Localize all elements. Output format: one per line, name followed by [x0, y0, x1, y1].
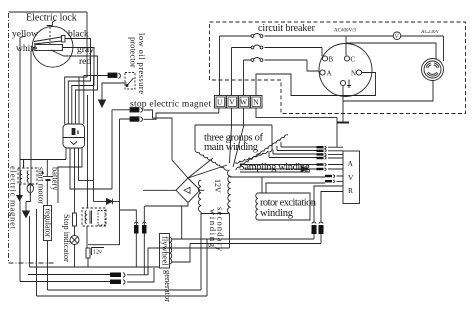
funnel right scalloped edge [235, 150, 272, 163]
wire bridge top diagonal [188, 158, 213, 178]
wire connector2 left [120, 119, 131, 201]
wire black lead [65, 39, 91, 125]
wires lower connectors up to AVR [314, 186, 343, 222]
svg-text:Stop indicator: Stop indicator [62, 214, 72, 262]
12V secondary winding coil [199, 180, 201, 212]
svg-text:B: B [329, 56, 334, 64]
wire oil switch feed [84, 76, 108, 125]
wires rotor winding to lower connectors [230, 177, 325, 193]
connector chevrons [325, 146, 327, 159]
wire bridge bottom [145, 203, 188, 239]
wire pole3 to pin A [307, 60, 320, 71]
wire bottom run 5 [37, 209, 208, 296]
ignition coil dashed box [82, 208, 106, 226]
ground arrow (start motor) [23, 211, 30, 218]
12v label box [92, 248, 105, 256]
relay / fuse block K1 [63, 124, 85, 148]
svg-text:flywheel: flywheel [161, 236, 171, 266]
svg-text:main winding: main winding [204, 142, 259, 153]
start motor symbol [27, 184, 33, 192]
ground arrow (electric magnet) [19, 184, 21, 196]
svg-text:battery: battery [51, 167, 61, 191]
svg-text:C: C [351, 56, 356, 64]
svg-text:W: W [240, 97, 248, 106]
wire bridge left [143, 189, 176, 191]
long run B [172, 244, 321, 263]
wire relay pin 5 stub [78, 77, 80, 124]
wire relay bottom pin 5 [58, 148, 82, 203]
wires lamp [74, 226, 76, 267]
wire oil switch to ground [102, 83, 127, 100]
svg-text:electric magnet: electric magnet [9, 166, 19, 230]
long run A to flywheel [172, 238, 314, 240]
wire start motor to ground [26, 193, 30, 211]
svg-text:start motor: start motor [37, 167, 47, 204]
bridge rectifier [176, 178, 200, 203]
wire W terminal bottom [233, 108, 244, 167]
wire panel corner to relay [65, 12, 87, 124]
wire red lead [64, 56, 98, 124]
wire relay bottom pin 4 (coil feed) [79, 148, 94, 180]
svg-text:generator: generator [163, 270, 173, 302]
wire bus to battery group [20, 160, 66, 177]
diode D1 [94, 200, 120, 202]
svg-text:N: N [351, 70, 356, 78]
svg-text:V: V [348, 173, 354, 182]
lower excitation connectors (vertical) [312, 225, 317, 234]
wire bridge right [200, 190, 230, 290]
ground arrow (oil protector) [101, 100, 103, 101]
stop indicator lamp [70, 236, 79, 245]
wire bottom run 4 (regulator) [48, 241, 202, 290]
electric magnet dashed box [18, 168, 37, 184]
svg-text:R: R [348, 186, 353, 195]
svg-text:circuit breaker: circuit breaker [258, 23, 316, 34]
ground under socket [342, 86, 344, 122]
socket pin B [322, 56, 327, 61]
AC230V socket [422, 59, 444, 81]
svg-text:stop electric magnet: stop electric magnet [130, 100, 211, 110]
wire yellow lead [20, 36, 26, 160]
stop electric magnet connector 2 [130, 117, 139, 122]
svg-text:winding: winding [260, 208, 294, 219]
AVR box [343, 151, 360, 204]
flywheel generator box [160, 234, 170, 269]
circuit breaker pole 3 [244, 60, 308, 96]
svg-text:A: A [348, 159, 354, 168]
svg-text:Electric lock: Electric lock [26, 13, 77, 24]
wires lower connectors down [314, 234, 321, 244]
wire AC230V socket bottom [343, 81, 433, 102]
wire V terminal bottom [230, 108, 232, 163]
control panel dash-dot border [9, 13, 56, 263]
wire pole2 to pin B [321, 48, 323, 57]
wire lock to ignition coil [87, 95, 89, 208]
main winding callout funnel [195, 125, 272, 150]
circuit breaker pole 2 [232, 48, 323, 96]
sampling winding underline [240, 171, 310, 173]
bottom connectors to flywheel [110, 273, 121, 278]
svg-text:red: red [79, 57, 91, 67]
wire C branch to AC230V [346, 43, 436, 59]
svg-text:12V: 12V [213, 179, 222, 193]
three groups of main winding coil (vertical chain) [228, 170, 230, 213]
svg-text:protector: protector [129, 37, 139, 68]
wire N terminal to socket N pin [256, 73, 376, 96]
wires ignition connectors up [120, 206, 145, 225]
svg-text:white: white [16, 44, 37, 54]
wire bottom run 2 [28, 274, 110, 276]
panel top border [9, 11, 88, 13]
svg-text:A: A [327, 70, 332, 78]
socket pin N [356, 70, 361, 75]
lock contact middle [35, 45, 63, 51]
low oil pressure protector switch [125, 73, 135, 90]
wire V meter to AC230V [443, 36, 445, 61]
socket ground pin mark [347, 80, 351, 88]
wire N terminal bottom to AVR area [256, 108, 337, 148]
wire bottom run 1 [30, 216, 160, 267]
regulator box [44, 206, 52, 241]
svg-text:V: V [229, 97, 235, 106]
svg-text:V: V [395, 34, 399, 40]
socket pin A [320, 70, 325, 75]
svg-text:black: black [68, 30, 89, 40]
diode on row 6 [301, 166, 307, 172]
key actuator mark [47, 20, 57, 26]
stop indicator resistor [73, 213, 77, 226]
wire battery to regulator [46, 180, 48, 206]
svg-text:AC230V: AC230V [421, 30, 439, 35]
secondary winding bottom wire [148, 248, 230, 275]
battery symbol [43, 176, 53, 178]
AC400V/3 socket body [319, 44, 372, 97]
flywheel generator coil [170, 237, 172, 264]
wire connector1 left [112, 110, 130, 189]
wire relay bottom pin 1 [65, 148, 67, 160]
wires connectors to AVR [328, 147, 343, 181]
U V W N terminal block [215, 96, 227, 109]
voltmeter V [393, 32, 401, 40]
socket pin C [344, 56, 349, 61]
electric lock switch S1 [32, 26, 73, 67]
lock contact upper [34, 37, 62, 44]
socket pin PE [340, 80, 345, 85]
stop electric magnet connector 1 [130, 108, 139, 113]
electric magnet coils [20, 171, 21, 183]
svg-text:yellow: yellow [12, 30, 38, 40]
wire magnet feed [23, 160, 25, 169]
lock contact lower [51, 50, 64, 56]
wires ignition connectors down [136, 234, 144, 275]
wire pole1 to pin C [345, 36, 347, 56]
svg-text:N: N [253, 97, 259, 106]
svg-text:AC400V/3: AC400V/3 [334, 29, 356, 34]
wires winding outputs rows 5-6 [240, 165, 317, 170]
ignition coil winding [85, 211, 86, 224]
circuit breaker dashed enclosure [210, 22, 466, 114]
svg-text:regulator: regulator [44, 209, 53, 238]
svg-text:Sampling winding: Sampling winding [239, 162, 311, 173]
svg-text:winding: winding [208, 209, 218, 248]
svg-text:gray: gray [77, 45, 94, 55]
AVR connector bars [317, 146, 333, 182]
wire diode to 12v resistor [88, 201, 120, 244]
wire connector1 right to bridge [144, 110, 189, 178]
sampling winding coil diagonal [236, 135, 288, 170]
wire white lead [31, 48, 35, 185]
funnel left scalloped edge [195, 150, 228, 170]
rotor excitation winding box [258, 193, 311, 220]
ignition vertical connectors [134, 225, 139, 234]
wire relay bottom pin 2 (lamp feed) [70, 148, 112, 189]
wire bottom run 3 (yellow return) [20, 160, 110, 282]
wire gray lead [63, 48, 95, 125]
wires sampling outputs to AVR connectors [269, 147, 317, 158]
circuit breaker pole 1 [220, 36, 444, 96]
wire coil box bottom [87, 226, 88, 267]
resistor R2 [86, 248, 90, 258]
svg-text:12v: 12v [93, 250, 102, 256]
svg-text:rotor excitation: rotor excitation [260, 198, 317, 209]
wire connector2 right to U [144, 108, 219, 119]
wires bottom connectors right [127, 268, 154, 282]
low oil pressure protector connector [108, 73, 117, 78]
wire chain top to bridge [188, 165, 227, 178]
wire oil connector left [94, 76, 109, 202]
svg-text:U: U [217, 97, 223, 106]
wire relay bottom pin 3 [74, 148, 76, 213]
